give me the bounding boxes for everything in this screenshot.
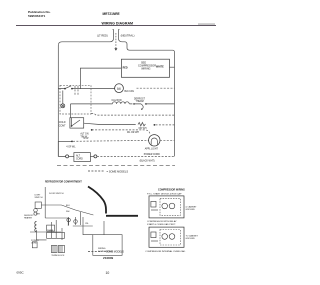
svg-text:HTR: HTR [36,213,41,215]
svg-text:CONT: CONT [59,124,66,127]
dashes to rail [156,124,175,126]
svg-text:(LT RED): (LT RED) [97,34,108,38]
svg-text:COMPRESSOR WIRING: COMPRESSOR WIRING [158,188,185,191]
lamp wire [62,91,64,104]
svg-text:SWITCH: SWITCH [35,197,43,199]
fan motor M [115,84,124,93]
svg-text:5995353471: 5995353471 [28,14,45,18]
svg-text:TIMER: TIMER [47,230,54,232]
wire red feed [80,68,121,89]
legend 2 [88,251,102,253]
compressor box 1 [149,196,184,218]
bulb to rail [160,139,175,141]
svg-text:ALT: ALT [76,154,81,157]
junction dot [154,124,156,126]
svg-text:REFRIGERATOR COMPARTMENT: REFRIGERATOR COMPARTMENT [45,181,82,184]
svg-text:APPL LIGHT: APPL LIGHT [145,148,159,151]
svg-text:MRT21NRE: MRT21NRE [103,12,120,16]
cold control box [70,118,84,128]
svg-text:WIRING DIAGRAM: WIRING DIAGRAM [102,21,134,25]
alt wire dashed [92,130,151,135]
defrost heater coil [35,222,37,232]
terminal circle right [94,155,97,158]
svg-text:BLK FAN: BLK FAN [125,90,135,93]
svg-text:THERM: THERM [136,101,144,103]
svg-text:COMPRESSOR INTERNAL OVERLOAD: COMPRESSOR INTERNAL OVERLOAD [145,250,185,253]
pictorial tiny labels [24,193,114,257]
compartment dashed box [60,85,91,114]
svg-text:095C: 095C [17,271,25,275]
door switch blade [65,86,71,89]
junction dot [64,88,66,90]
svg-text:COMPRESSOR WITH RELAY: COMPRESSOR WITH RELAY [147,220,177,223]
ground arrowhead [114,48,117,51]
svg-text:10: 10 [106,271,110,275]
wire left line cord [58,36,113,156]
svg-text:(BLACK WHT): (BLACK WHT) [140,159,155,162]
wire white out [170,66,175,68]
thick harness curve [88,187,106,214]
svg-text:WIRING: WIRING [141,67,150,70]
timer resistor [138,123,145,126]
timer cluster boxes [47,225,55,231]
terminal circle left [66,155,69,158]
fan motor row wire [58,88,114,90]
lamp [61,104,65,108]
defrost thermostat [135,104,144,110]
svg-text:POWER CORD: POWER CORD [144,154,160,156]
svg-text:Z10809: Z10809 [103,256,114,260]
svg-text:TERM BLOCK: TERM BLOCK [51,255,65,257]
wire fan to rail dashed [137,87,175,89]
switch circles [34,209,38,213]
svg-text:START & OVERLOAD PROT.: START & OVERLOAD PROT. [147,223,176,226]
compressor box 2 [149,227,184,247]
heater row wire [71,103,175,105]
alt cord box [74,153,91,162]
ground pin dashed [115,33,117,48]
plug prong left [112,29,115,36]
svg-text:BLK: BLK [66,205,70,207]
svg-text:GROUND: GROUND [186,238,196,240]
light switch box [35,202,41,208]
switch poles dashed [74,86,76,96]
plug prong right [118,29,121,36]
pictorial wires [41,205,93,215]
svg-text:HEATER: HEATER [24,217,33,220]
svg-text:GROUND: GROUND [186,209,196,211]
svg-text:TO CABINET: TO CABINET [186,235,199,238]
svg-text:= SOME MODELS: = SOME MODELS [104,251,124,254]
pictorial content placeholder: built below [30,187,138,256]
cold control switch [72,118,81,126]
svg-text:= SOME MODELS: = SOME MODELS [107,169,129,173]
header rule [16,25,216,27]
svg-text:4 OF WL: 4 OF WL [66,146,76,148]
svg-text:CORD: CORD [31,243,37,245]
bottom dashed boundary [57,165,175,167]
svg-text:CAL ROD: CAL ROD [112,99,122,102]
cold control riser [70,104,72,118]
thick horizontal band [106,215,138,217]
svg-text:WHITE: WHITE [156,66,164,69]
svg-text:(NEUTRAL): (NEUTRAL) [121,34,135,38]
svg-text:P.T.C. START DEVICE & RUN CAP: P.T.C. START DEVICE & RUN CAP [147,193,182,196]
bottom cluster [32,242,37,248]
wire neutral cord [119,36,175,156]
light row [58,141,72,143]
svg-text:W W: W W [83,138,89,140]
svg-text:ALT ON: ALT ON [80,132,88,135]
svg-text:CORD: CORD [76,159,83,161]
cord dashes to rail [97,155,175,157]
cold control out wire [84,123,136,124]
junction dot [71,88,73,90]
svg-text:WH: WH [66,211,70,213]
ice maker box [93,235,122,256]
svg-text:M: M [117,86,120,91]
defrost heater coils [112,102,129,104]
publication number block [28,10,51,18]
gray smudge right end of rule [198,23,215,25]
light bulb [149,135,160,146]
svg-text:RED: RED [123,67,128,70]
compressor box [121,59,169,77]
svg-text:WL OR WH: WL OR WH [127,132,139,134]
cord row [58,142,65,157]
legend some models [88,170,104,172]
main vertical harness [44,187,46,218]
svg-text:DOOR SWITCH: DOOR SWITCH [49,193,64,195]
some-models dashed row [91,114,175,116]
